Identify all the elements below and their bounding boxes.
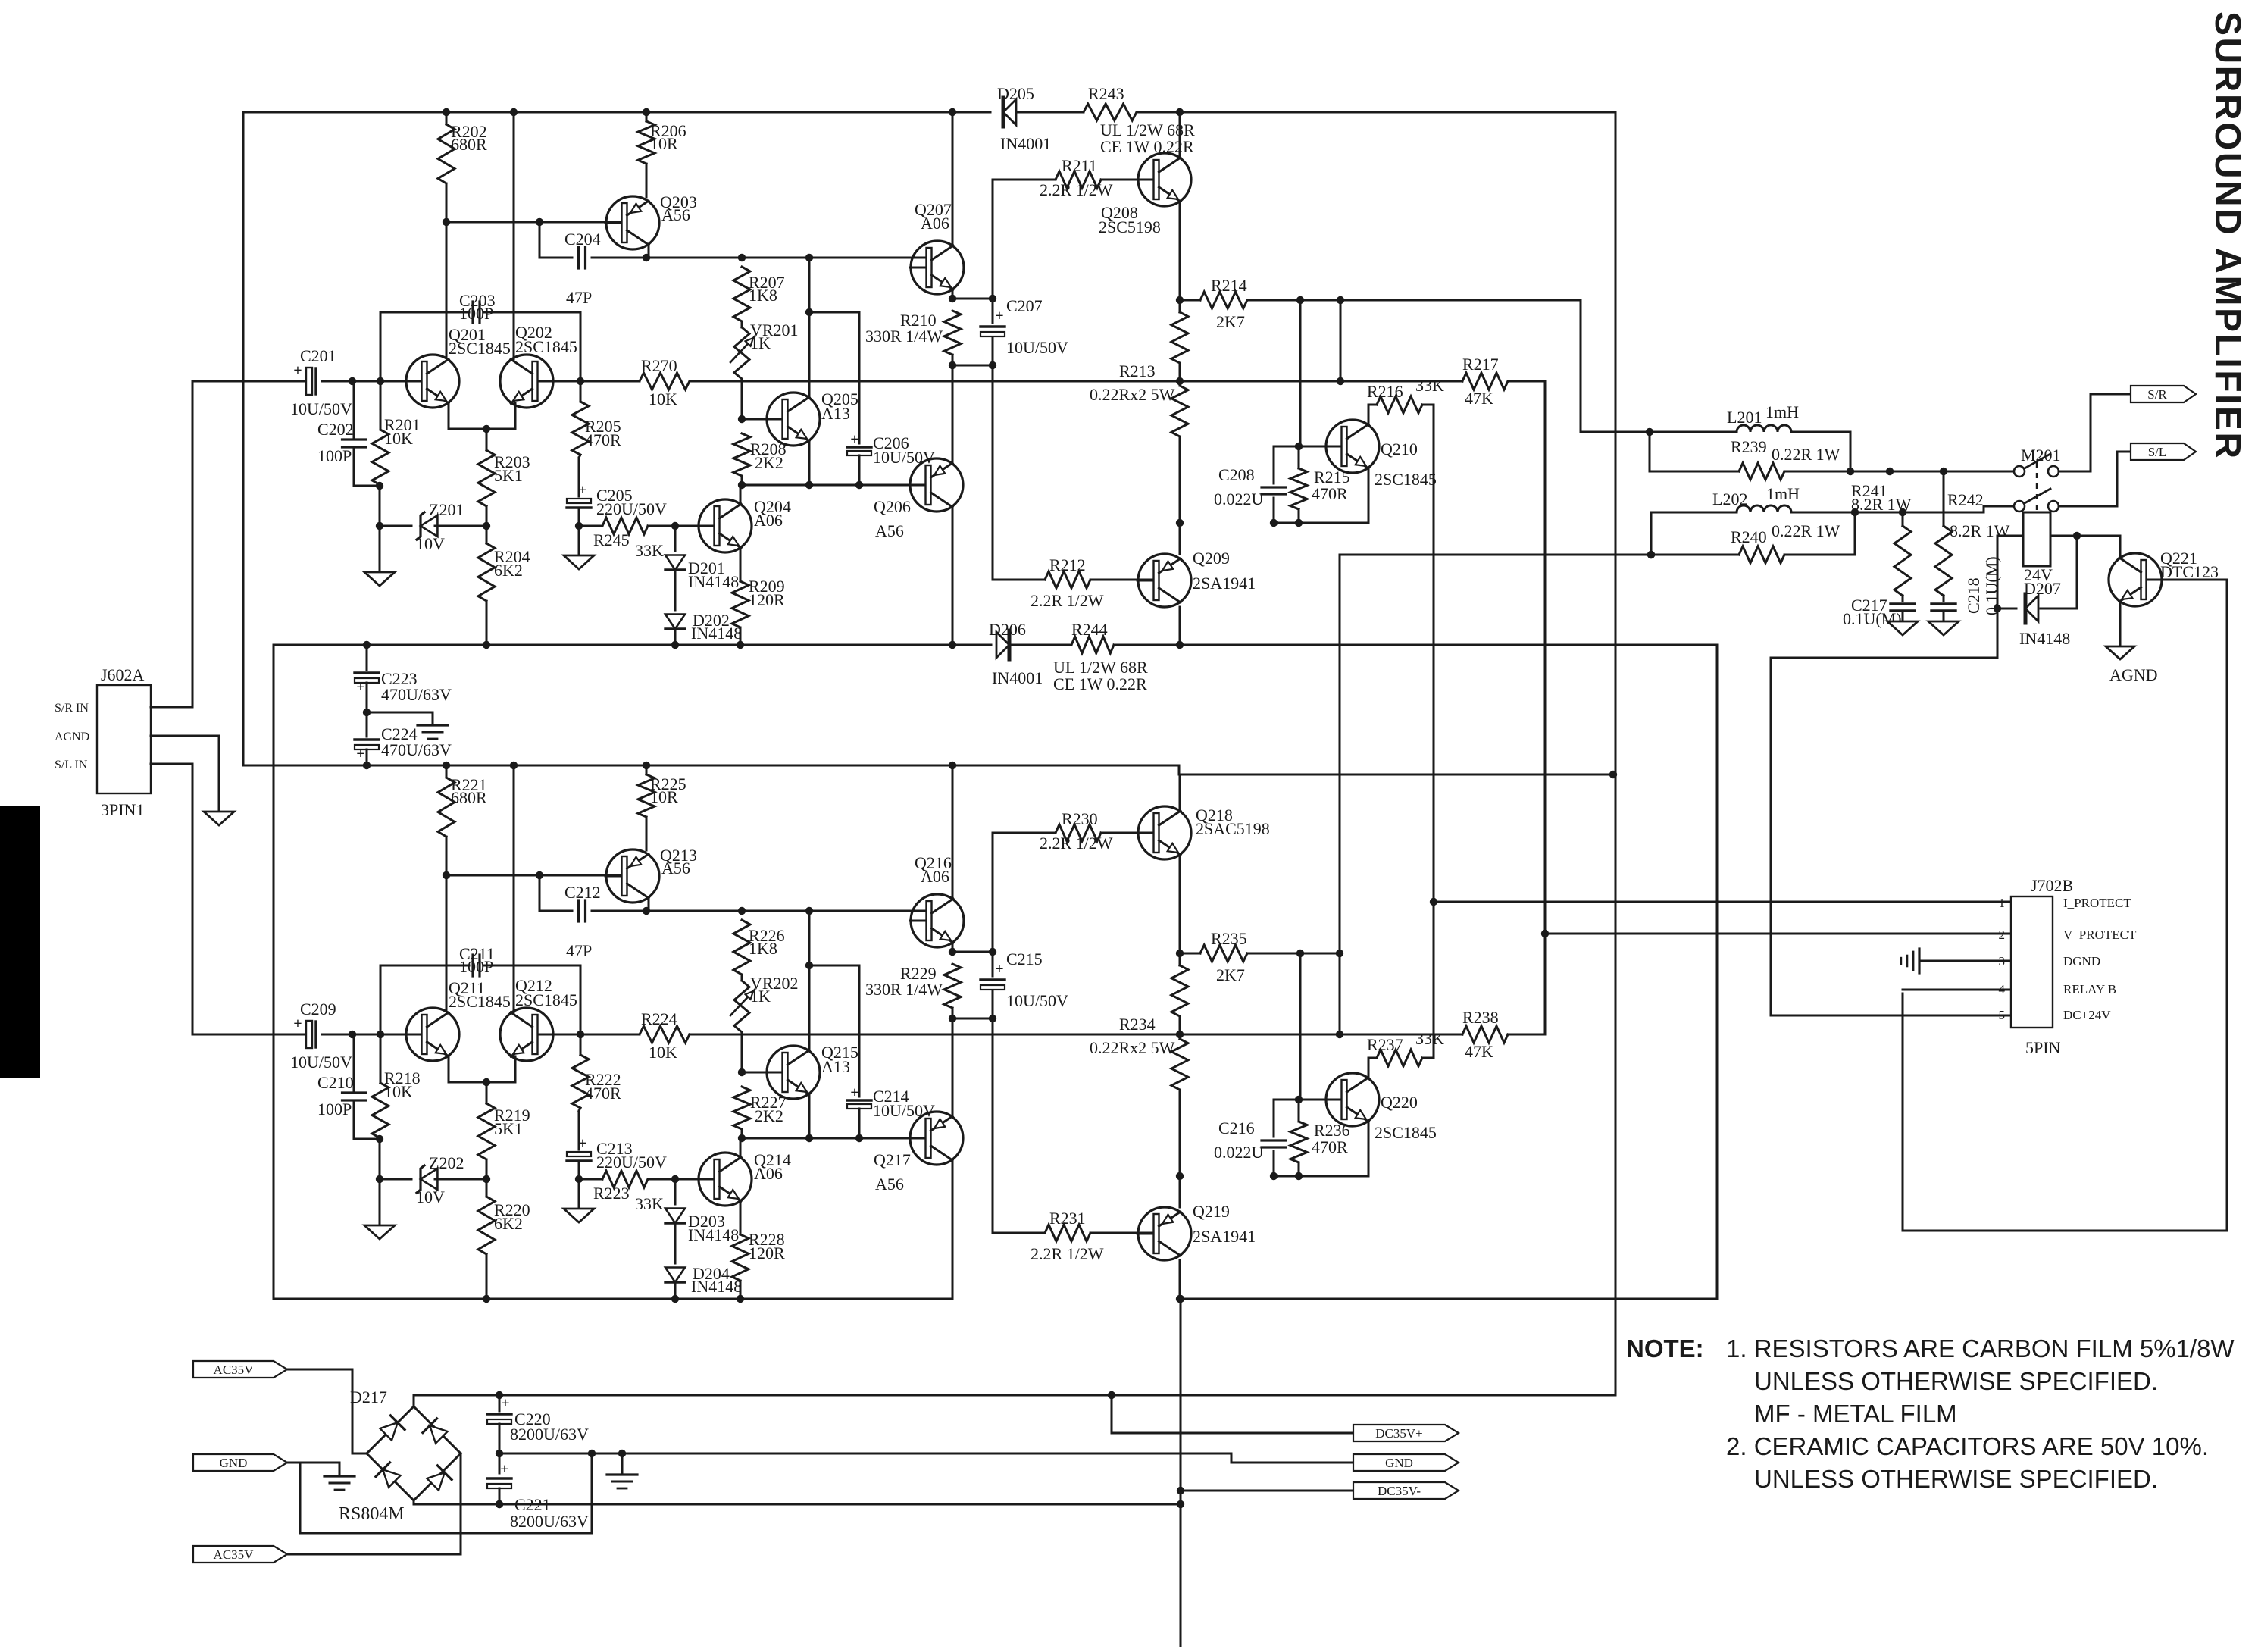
- svg-text:IN4148: IN4148: [691, 624, 742, 643]
- svg-text:DGND: DGND: [2063, 954, 2100, 968]
- diode D202: [674, 570, 677, 610]
- wire C209 to Q211 base: [322, 1034, 414, 1036]
- resistor R217: [1462, 373, 1508, 390]
- wire Q217 emitter: [952, 1018, 954, 1117]
- svg-text:2K2: 2K2: [755, 453, 783, 472]
- svg-text:33K: 33K: [635, 1194, 664, 1213]
- svg-text:C204: C204: [564, 230, 601, 249]
- resistor R206: [646, 112, 648, 121]
- flag GND output: [1353, 1454, 1459, 1471]
- svg-text:R216: R216: [1367, 382, 1403, 401]
- svg-text:AC35V: AC35V: [214, 1363, 255, 1377]
- wire node R218/C210 to zener: [379, 1139, 381, 1179]
- wire Q213 collector to Q216 base: [648, 899, 650, 911]
- svg-text:GND: GND: [1385, 1456, 1413, 1470]
- svg-text:0.022U: 0.022U: [1214, 1143, 1264, 1162]
- resistor R216: [1377, 396, 1422, 413]
- svg-text:2SA1941: 2SA1941: [1193, 574, 1256, 593]
- wire feedback bracket with C211: [380, 965, 469, 1034]
- svg-text:47P: 47P: [566, 288, 592, 307]
- transistor Q204: [699, 499, 752, 552]
- wire driver column upper: [992, 833, 994, 952]
- svg-text:+: +: [356, 746, 364, 762]
- capacitor C204 row: [539, 222, 572, 258]
- wire R214 to Q210 base: [1299, 300, 1302, 446]
- svg-text:47K: 47K: [1465, 389, 1493, 408]
- resistor R208: [733, 433, 750, 476]
- svg-text:100P: 100P: [317, 1100, 352, 1119]
- svg-text:A56: A56: [875, 521, 904, 540]
- svg-text:R239: R239: [1731, 437, 1767, 456]
- transistor Q214: [699, 1153, 752, 1206]
- wire S/L output row: [1855, 506, 2014, 512]
- ground: [379, 1179, 381, 1225]
- bridge rectifier D217 RS804M: [367, 1406, 414, 1453]
- svg-text:DC35V-: DC35V-: [1378, 1484, 1421, 1498]
- svg-text:R237: R237: [1367, 1035, 1403, 1054]
- flag AC35V upper: [193, 1361, 287, 1378]
- wire Q205 collector bracket: [808, 258, 811, 397]
- svg-text:10U/50V: 10U/50V: [290, 399, 352, 418]
- transistor Q203: [606, 196, 659, 249]
- svg-text:L201: L201: [1727, 408, 1762, 427]
- switch M201 pole 1: [2014, 466, 2025, 477]
- svg-text:IN4148: IN4148: [2019, 629, 2070, 648]
- resistor R235: [1180, 953, 1200, 955]
- svg-text:470U/63V: 470U/63V: [381, 685, 452, 704]
- svg-text:I_PROTECT: I_PROTECT: [2063, 896, 2131, 910]
- svg-text:5PIN: 5PIN: [2025, 1038, 2061, 1057]
- resistor R210: [952, 298, 993, 300]
- svg-text:10K: 10K: [384, 1082, 413, 1101]
- svg-text:470R: 470R: [1312, 1137, 1348, 1156]
- svg-text:Q209: Q209: [1193, 549, 1230, 568]
- svg-text:2K7: 2K7: [1216, 965, 1245, 984]
- capacitor C207: [992, 299, 994, 323]
- svg-text:+: +: [850, 1084, 858, 1101]
- svg-text:10U/50V: 10U/50V: [1006, 338, 1068, 357]
- wire Q204 collector: [740, 485, 742, 504]
- svg-text:DC+24V: DC+24V: [2063, 1008, 2111, 1022]
- svg-text:470U/63V: 470U/63V: [381, 740, 452, 759]
- wire DC35V+ tap: [1112, 1395, 1352, 1433]
- wire driver column lower: [992, 365, 994, 580]
- wire Q209 collector: [1179, 607, 1181, 645]
- svg-text:8.2R 1W: 8.2R 1W: [1950, 521, 2010, 540]
- svg-text:C218: C218: [1964, 577, 1983, 614]
- capacitor C224: [355, 738, 379, 740]
- wire feedback bracket with C203: [380, 312, 469, 381]
- transistor Q220: [1326, 1073, 1379, 1126]
- wire Q216 collector riser: [952, 765, 954, 899]
- svg-text:1mH: 1mH: [1765, 402, 1799, 421]
- svg-text:2K7: 2K7: [1216, 312, 1245, 331]
- svg-text:10U/50V: 10U/50V: [873, 1101, 935, 1120]
- wire base Q202: [540, 380, 580, 383]
- svg-text:2.2R 1/2W: 2.2R 1/2W: [1030, 1244, 1104, 1263]
- svg-text:R223: R223: [593, 1184, 630, 1203]
- ground earth: [621, 1453, 624, 1475]
- resistor R234 upper 0.22R: [1179, 953, 1181, 965]
- diode D204: [674, 1223, 677, 1263]
- svg-text:220U/50V: 220U/50V: [596, 1153, 667, 1172]
- bridge diode D217c: [383, 1469, 400, 1487]
- capacitor C223: [366, 645, 368, 670]
- wire C201 to Q201 base: [322, 380, 414, 383]
- resistor R221: [446, 765, 448, 778]
- wire -35V mid bus: [274, 644, 991, 646]
- wire DC35V- riser: [1180, 1299, 1182, 1646]
- connector J602A: [97, 685, 151, 793]
- wire node R201/C202 to zener: [379, 486, 381, 526]
- wire Q216 emitter: [952, 943, 954, 952]
- transistor Q201: [406, 355, 459, 408]
- resistor R236: [1298, 1100, 1300, 1122]
- svg-text:2. CERAMIC CAPACITORS ARE 50V: 2. CERAMIC CAPACITORS ARE 50V 10%.: [1726, 1432, 2209, 1460]
- wire S/R output row: [1850, 471, 2014, 473]
- resistor R238: [1462, 1026, 1508, 1043]
- svg-text:2SC1845: 2SC1845: [449, 339, 511, 358]
- svg-text:R240: R240: [1731, 527, 1767, 546]
- capacitor C201: [306, 368, 312, 395]
- svg-text:10K: 10K: [384, 429, 413, 448]
- inductor L201: [1646, 431, 1737, 433]
- resistor R222: [580, 1034, 582, 1055]
- wire bottom channel +35V bus: [243, 765, 1613, 774]
- wire tee to output rail: [1340, 300, 1342, 381]
- wire Q212 collector riser: [513, 765, 515, 1012]
- svg-text:D206: D206: [989, 620, 1026, 639]
- svg-text:2SC1845: 2SC1845: [515, 990, 577, 1009]
- wire Q213 base row: [446, 874, 620, 877]
- wire Q205 emitter to bias row: [808, 441, 811, 485]
- svg-text:UNLESS OTHERWISE SPECIFIED.: UNLESS OTHERWISE SPECIFIED.: [1754, 1465, 2158, 1493]
- wire Q214 base: [675, 1178, 698, 1181]
- inductor L202: [1651, 512, 1737, 555]
- wire to S/L flag: [2059, 452, 2129, 506]
- wire bridge - output: [414, 1500, 1181, 1504]
- transistor Q206: [910, 458, 963, 512]
- capacitor C220: [499, 1395, 501, 1411]
- wire Q221 base from RELAY B: [1903, 580, 2227, 1231]
- svg-text:IN4148: IN4148: [688, 1225, 739, 1244]
- node L202 input: [1647, 551, 1655, 558]
- wire DC35V- tap: [1181, 1490, 1352, 1492]
- flag S/R: [2131, 386, 2196, 402]
- svg-text:R244: R244: [1071, 620, 1108, 639]
- svg-text:330R 1/4W: 330R 1/4W: [865, 327, 943, 346]
- wire Q219 emitter: [1179, 1176, 1181, 1207]
- wire base Q212: [540, 1034, 580, 1036]
- svg-text:NOTE:: NOTE:: [1626, 1334, 1704, 1363]
- wire Q218 collector: [1179, 774, 1181, 811]
- svg-text:Z202: Z202: [429, 1153, 464, 1172]
- svg-text:470R: 470R: [1312, 484, 1348, 503]
- resistor R270: [580, 380, 640, 383]
- wire -35V riser: [1716, 645, 1719, 1299]
- svg-text:10V: 10V: [416, 1187, 445, 1206]
- resistor R226: [733, 920, 750, 975]
- wire AGND: [151, 736, 219, 812]
- svg-text:R231: R231: [1049, 1209, 1086, 1228]
- svg-text:0.22Rx2 5W: 0.22Rx2 5W: [1090, 1038, 1175, 1057]
- transistor Q202: [500, 355, 553, 408]
- wire pin1 I_PROTECT: [1434, 901, 2011, 903]
- svg-text:10R: 10R: [650, 787, 678, 806]
- svg-text:+: +: [500, 1461, 508, 1478]
- svg-text:C210: C210: [317, 1073, 354, 1092]
- ground DGND: [1918, 949, 1920, 973]
- wire Q210 collector: [1368, 405, 1377, 424]
- wire to S/R flag: [2059, 394, 2129, 471]
- svg-text:1K8: 1K8: [749, 286, 777, 305]
- svg-text:33K: 33K: [1415, 376, 1444, 395]
- svg-text:C202: C202: [317, 420, 354, 439]
- black margin block: [0, 806, 40, 1078]
- resistor R240: [1651, 554, 1739, 556]
- svg-text:C216: C216: [1218, 1119, 1255, 1137]
- ground earth: [367, 712, 433, 725]
- svg-text:UNLESS OTHERWISE SPECIFIED.: UNLESS OTHERWISE SPECIFIED.: [1754, 1367, 2158, 1395]
- wire input row S/R: [192, 380, 306, 383]
- wire pin4 RELAY B: [1903, 989, 2011, 991]
- wire Q202 collector riser: [513, 112, 515, 359]
- connector J702B: [2011, 896, 2053, 1028]
- svg-text:C207: C207: [1006, 296, 1043, 315]
- svg-text:100P: 100P: [317, 446, 352, 465]
- svg-text:2.2R 1/2W: 2.2R 1/2W: [1040, 834, 1113, 853]
- ground AGND: [2106, 646, 2134, 659]
- transistor Q218: [1138, 806, 1191, 859]
- svg-text:A06: A06: [921, 214, 949, 233]
- resistor R223: [578, 1163, 580, 1179]
- wire Q221 emitter to AGND: [2119, 603, 2122, 646]
- wire Q220 base row: [1274, 1099, 1342, 1101]
- ground: [1928, 621, 1959, 635]
- svg-text:R217: R217: [1462, 355, 1499, 374]
- capacitor C208: [1273, 446, 1275, 483]
- wire Q215 emitter to bias row: [808, 1094, 811, 1138]
- resistor R231: [993, 1232, 1045, 1234]
- wire pin2 V_PROTECT: [1545, 933, 2011, 935]
- svg-text:2SC1845: 2SC1845: [449, 992, 511, 1011]
- bridge diode D217b: [430, 1425, 447, 1443]
- resistor R225: [646, 765, 648, 774]
- zener Z201: [380, 525, 411, 527]
- wire Q211 collector: [446, 875, 448, 1011]
- wire output rail: [690, 1034, 1462, 1036]
- resistor R220: [486, 1179, 488, 1197]
- resistor R201: [380, 381, 382, 430]
- wire emitter join Q211/Q212: [449, 1056, 515, 1082]
- svg-text:10V: 10V: [416, 534, 445, 553]
- resistor R211: [993, 179, 1056, 181]
- svg-text:C208: C208: [1218, 465, 1255, 484]
- node Q210 base: [1295, 443, 1303, 450]
- wire VR201 to R208: [741, 379, 743, 419]
- svg-text:2.2R 1/2W: 2.2R 1/2W: [1030, 591, 1104, 610]
- svg-text:Q206: Q206: [874, 497, 911, 516]
- wire bias row: [742, 1137, 926, 1140]
- svg-text:R230: R230: [1062, 809, 1098, 828]
- svg-text:D217: D217: [350, 1388, 387, 1406]
- resistor R203: [486, 429, 488, 450]
- svg-text:2SC5198: 2SC5198: [1099, 217, 1161, 236]
- wire to L201: [1581, 300, 1646, 432]
- switch M201 pole 2: [2014, 501, 2025, 512]
- resistor R209: [740, 548, 742, 581]
- ground earth: [324, 1475, 355, 1477]
- wire Q219 collector: [1179, 1260, 1181, 1299]
- svg-text:IN4001: IN4001: [992, 668, 1043, 687]
- resistor R219: [486, 1082, 488, 1103]
- svg-text:+: +: [995, 308, 1003, 324]
- svg-text:AGND: AGND: [2109, 665, 2158, 684]
- wire Q210 base row: [1274, 446, 1342, 448]
- svg-text:R224: R224: [641, 1009, 677, 1028]
- dashed mechanical link: [2036, 462, 2038, 512]
- svg-text:J702B: J702B: [2031, 876, 2073, 895]
- capacitor C218: [1931, 602, 1956, 605]
- wire VR202 to R227: [741, 1032, 743, 1072]
- wire Q209 emitter: [1179, 523, 1181, 554]
- svg-text:2SC1845: 2SC1845: [1375, 1123, 1437, 1142]
- bridge diode D217d: [427, 1472, 444, 1490]
- resistor R204: [486, 526, 488, 543]
- svg-text:Q217: Q217: [874, 1150, 911, 1169]
- svg-text:Q219: Q219: [1193, 1202, 1230, 1221]
- ground: [379, 526, 381, 572]
- wire Q208 collector: [1179, 112, 1181, 158]
- svg-text:DC35V+: DC35V+: [1375, 1426, 1422, 1441]
- wire Q207 collector riser: [952, 112, 954, 246]
- wire output rail: [690, 380, 1462, 383]
- resistor R230: [993, 832, 1056, 834]
- transistor Q210: [1326, 420, 1379, 473]
- svg-text:680R: 680R: [451, 135, 487, 154]
- resistor R207: [733, 267, 750, 321]
- svg-text:S/L IN: S/L IN: [55, 759, 88, 771]
- wire AC35V lower to bridge: [287, 1453, 461, 1554]
- svg-text:33K: 33K: [1415, 1029, 1444, 1048]
- transistor Q215: [742, 1072, 785, 1074]
- svg-text:R211: R211: [1062, 156, 1097, 175]
- wire PSU ground rail: [499, 1453, 1352, 1463]
- svg-text:8.2R 1W: 8.2R 1W: [1851, 495, 1912, 514]
- wire S/L IN: [151, 764, 192, 1034]
- wire emitter row: [1274, 522, 1368, 524]
- capacitor C209: [306, 1021, 312, 1048]
- capacitor C212 row: [539, 875, 572, 911]
- wire AC35V to bridge: [287, 1369, 367, 1453]
- wire driver column upper: [992, 180, 994, 299]
- svg-text:2K2: 2K2: [755, 1106, 783, 1125]
- svg-text:33K: 33K: [635, 541, 664, 560]
- wire Q217 collector: [952, 1160, 954, 1299]
- svg-text:470R: 470R: [585, 1084, 621, 1103]
- wire V_PROTECT riser: [1544, 381, 1547, 1034]
- svg-text:A06: A06: [754, 511, 783, 530]
- svg-text:AC35V: AC35V: [214, 1547, 255, 1562]
- svg-text:5K1: 5K1: [494, 1119, 523, 1138]
- svg-text:0.022U: 0.022U: [1214, 490, 1264, 508]
- svg-text:S/R: S/R: [2147, 387, 2167, 402]
- flag DC35V-: [1353, 1482, 1459, 1499]
- svg-text:C212: C212: [564, 883, 601, 902]
- svg-text:D205: D205: [997, 84, 1034, 103]
- transistor Q219: [1138, 1207, 1191, 1260]
- relay coil K201: [2023, 512, 2050, 566]
- capacitor C211: [471, 955, 474, 976]
- svg-text:10K: 10K: [649, 390, 677, 408]
- wire Q214 collector: [740, 1138, 742, 1157]
- svg-text:MF - METAL FILM: MF - METAL FILM: [1754, 1400, 1957, 1428]
- svg-text:S/L: S/L: [2148, 445, 2167, 459]
- wire Q210 emitter: [1368, 468, 1370, 523]
- svg-text:47K: 47K: [1465, 1042, 1493, 1061]
- svg-text:A13: A13: [821, 404, 850, 423]
- svg-text:2SA1941: 2SA1941: [1193, 1227, 1256, 1246]
- wire +35V top bus: [1137, 111, 1615, 114]
- resistor R202: [446, 112, 448, 124]
- capacitor C205: [578, 458, 580, 496]
- svg-text:+: +: [578, 1135, 586, 1152]
- svg-text:2SAC5198: 2SAC5198: [1196, 819, 1270, 838]
- wire I_PROTECT riser: [1433, 405, 1435, 1058]
- potentiometer VR201: [741, 321, 743, 327]
- diode D205: [1003, 99, 1016, 125]
- capacitor C203: [471, 302, 474, 323]
- svg-text:RS804M: RS804M: [339, 1504, 405, 1524]
- potentiometer VR202: [741, 975, 743, 981]
- svg-text:1K8: 1K8: [749, 939, 777, 958]
- capacitor C216: [1273, 1100, 1275, 1137]
- svg-text:8200U/63V: 8200U/63V: [510, 1425, 589, 1444]
- resistor R212: [993, 579, 1045, 581]
- flag S/L: [2131, 443, 2196, 460]
- svg-text:R234: R234: [1119, 1015, 1156, 1034]
- resistor R215: [1298, 446, 1300, 468]
- flag GND input: [193, 1454, 287, 1471]
- svg-text:J602A: J602A: [101, 665, 145, 684]
- svg-text:6K2: 6K2: [494, 561, 523, 580]
- capacitor C202: [353, 381, 355, 440]
- svg-text:CE 1W 0.22R: CE 1W 0.22R: [1053, 674, 1147, 693]
- svg-text:V_PROTECT: V_PROTECT: [2063, 928, 2137, 942]
- svg-text:R212: R212: [1049, 555, 1086, 574]
- svg-text:10K: 10K: [649, 1043, 677, 1062]
- wire relay left to 24V: [1771, 536, 2023, 658]
- resistor R228: [740, 1201, 742, 1234]
- svg-text:3PIN1: 3PIN1: [101, 800, 144, 819]
- svg-text:5K1: 5K1: [494, 466, 523, 485]
- svg-text:100P: 100P: [459, 304, 493, 323]
- svg-text:2SC1845: 2SC1845: [515, 337, 577, 356]
- svg-text:1K: 1K: [750, 987, 771, 1006]
- svg-text:R270: R270: [641, 356, 677, 375]
- svg-text:8200U/63V: 8200U/63V: [510, 1512, 589, 1531]
- capacitor C206: [847, 446, 871, 448]
- resistor R224: [580, 1034, 640, 1036]
- svg-text:A13: A13: [821, 1057, 850, 1076]
- wire Q201 collector: [446, 222, 448, 358]
- svg-text:D207: D207: [2024, 579, 2061, 598]
- svg-text:120R: 120R: [749, 1244, 785, 1262]
- resistor R218: [380, 1034, 382, 1083]
- svg-text:R242: R242: [1947, 490, 1984, 509]
- wire bias row: [742, 484, 926, 487]
- wire bridge + output: [414, 1395, 1615, 1406]
